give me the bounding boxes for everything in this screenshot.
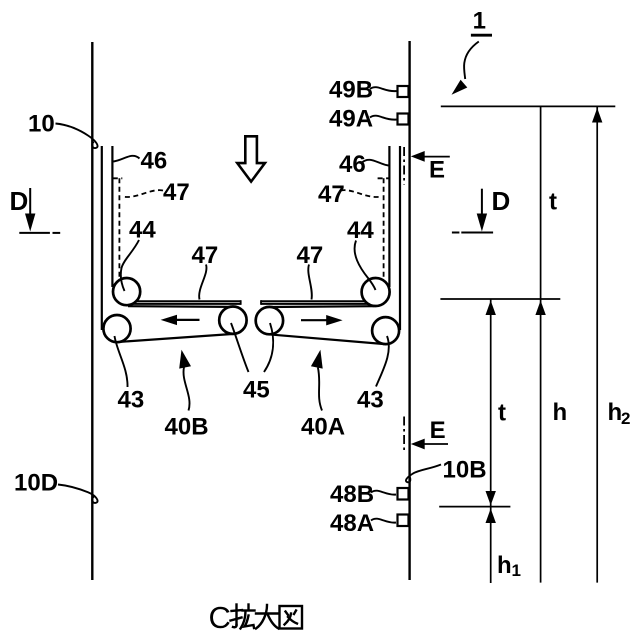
svg-text:E: E bbox=[430, 417, 446, 444]
svg-text:10: 10 bbox=[28, 110, 55, 137]
svg-text:h: h bbox=[608, 399, 623, 426]
svg-text:43: 43 bbox=[357, 386, 384, 413]
svg-text:D: D bbox=[10, 186, 29, 216]
svg-text:47: 47 bbox=[318, 181, 345, 208]
svg-text:47: 47 bbox=[163, 179, 190, 206]
svg-text:1: 1 bbox=[512, 561, 521, 580]
svg-text:46: 46 bbox=[339, 151, 366, 178]
svg-text:48B: 48B bbox=[330, 481, 374, 508]
svg-text:48A: 48A bbox=[330, 510, 374, 537]
svg-text:47: 47 bbox=[297, 242, 324, 269]
svg-text:43: 43 bbox=[118, 386, 145, 413]
svg-text:C: C bbox=[209, 600, 231, 635]
svg-text:40A: 40A bbox=[301, 414, 345, 441]
svg-text:49A: 49A bbox=[329, 105, 373, 132]
svg-text:10B: 10B bbox=[443, 457, 487, 484]
svg-text:10D: 10D bbox=[14, 469, 58, 496]
svg-text:E: E bbox=[429, 157, 445, 184]
svg-text:44: 44 bbox=[347, 217, 374, 244]
svg-text:t: t bbox=[498, 400, 506, 427]
svg-text:47: 47 bbox=[192, 242, 219, 269]
svg-text:h: h bbox=[553, 399, 568, 426]
svg-text:2: 2 bbox=[621, 409, 630, 428]
svg-text:40B: 40B bbox=[165, 414, 209, 441]
svg-text:t: t bbox=[549, 189, 557, 216]
svg-text:1: 1 bbox=[473, 7, 486, 34]
svg-text:44: 44 bbox=[129, 217, 156, 244]
svg-text:h: h bbox=[497, 552, 512, 579]
svg-text:D: D bbox=[492, 186, 511, 216]
svg-text:49B: 49B bbox=[329, 76, 373, 103]
svg-text:45: 45 bbox=[243, 377, 270, 404]
svg-text:46: 46 bbox=[141, 148, 168, 175]
